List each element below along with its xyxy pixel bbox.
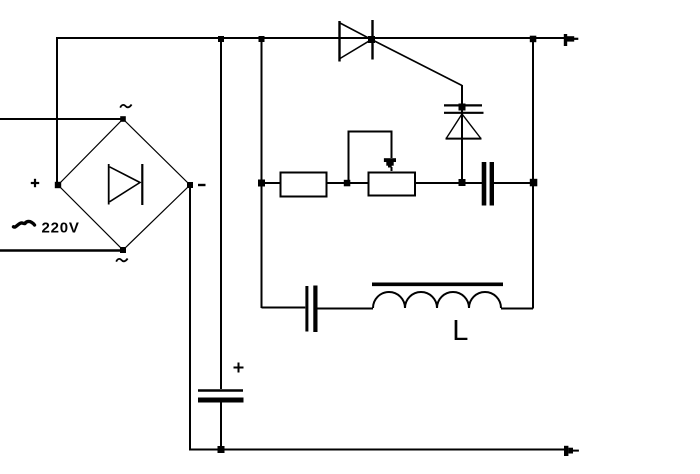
svg-text:220V: 220V [42,220,80,237]
svg-text:L: L [452,315,468,347]
